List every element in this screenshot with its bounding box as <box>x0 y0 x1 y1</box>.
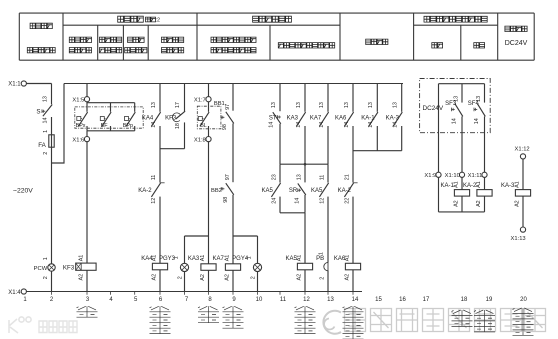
terminal X1:8 <box>194 137 211 144</box>
svg-text:24: 24 <box>272 198 278 204</box>
wire BB2 to junction <box>232 195 234 236</box>
svg-text:12: 12 <box>320 198 326 204</box>
svg-text:PCW: PCW <box>34 266 48 272</box>
svg-text:SR: SR <box>289 188 298 194</box>
wire BB1 to BB2 <box>232 123 234 182</box>
svg-text:KA7: KA7 <box>212 256 224 262</box>
svg-text:KA3: KA3 <box>188 256 200 262</box>
svg-text:A1: A1 <box>476 181 482 188</box>
svg-text:BB1: BB1 <box>214 101 225 107</box>
wire X1:6 down to time relay coil <box>86 141 88 263</box>
dashed enclosure pressure switches <box>75 107 143 128</box>
svg-text:BL: BL <box>200 123 207 129</box>
svg-text:14: 14 <box>296 122 302 128</box>
svg-text:15: 15 <box>375 297 382 303</box>
svg-text:11: 11 <box>151 175 157 181</box>
relay coil KA3 <box>188 255 216 292</box>
svg-text:1: 1 <box>43 130 49 133</box>
svg-text:14: 14 <box>393 122 399 128</box>
svg-text:17: 17 <box>423 297 430 303</box>
bus ruler ticks and numbers <box>23 292 527 304</box>
table cell: alarm valve pressure switch <box>125 37 147 53</box>
svg-text:2: 2 <box>178 276 184 279</box>
node wire ST KA3 KA7 <box>280 163 328 165</box>
contact table KA6 <box>343 306 364 339</box>
svg-text:X1:10: X1:10 <box>445 173 460 179</box>
DC24V feed rail <box>439 83 485 85</box>
svg-text:KA-2: KA-2 <box>138 188 152 194</box>
svg-text:A1: A1 <box>151 255 157 262</box>
contact KA7 13-14 <box>310 84 329 165</box>
svg-text:13: 13 <box>42 96 48 102</box>
svg-text:2: 2 <box>251 276 257 279</box>
table cell: high tank flow switch <box>100 37 122 53</box>
manual start button SF3 13-14 <box>445 84 463 173</box>
contact KA5 11-12 <box>311 164 329 262</box>
wire joining KA4 and KF3 outputs <box>160 148 185 150</box>
svg-text:A1: A1 <box>296 255 302 262</box>
relay coil KA-2 <box>463 177 492 212</box>
contact KA-1 13-14 <box>361 84 378 151</box>
wire KA4 contact to KA-2 contact <box>159 126 161 183</box>
svg-text:13: 13 <box>327 297 334 303</box>
terminal X1:9 <box>424 172 441 179</box>
pressure switch BPx <box>76 103 88 131</box>
table cell: stop <box>474 43 485 48</box>
signal lamp PGY4 <box>232 236 261 292</box>
wire junction to KA7 coil <box>232 236 234 264</box>
terminal X1:13 <box>511 227 526 242</box>
svg-text:13: 13 <box>368 102 374 108</box>
terminal X1:10 <box>445 172 465 179</box>
table cell: control power protection & indication <box>27 23 55 53</box>
timed contact KF3 17-18 <box>165 84 185 149</box>
wire DC24V to X1:9 <box>438 84 440 173</box>
svg-text:KF3: KF3 <box>165 116 177 122</box>
wire fuse to lamp and bottom bus <box>51 147 53 264</box>
relay coil KA-3 <box>501 159 531 228</box>
svg-text:S: S <box>36 109 40 116</box>
svg-text:22: 22 <box>345 198 351 204</box>
svg-text:14: 14 <box>452 118 458 124</box>
svg-text:13: 13 <box>453 96 459 102</box>
svg-text:21: 21 <box>345 174 351 180</box>
contact KA3 13-14 <box>287 84 306 165</box>
svg-text:2: 2 <box>319 277 325 280</box>
svg-text:A2: A2 <box>453 200 459 207</box>
svg-text:KA3: KA3 <box>287 116 299 122</box>
wire joining KA6 KA-1 KA-3 <box>353 150 402 152</box>
contact KA5 23-24 <box>261 164 280 213</box>
table header: fire linkage manual control panel <box>424 16 487 22</box>
contact table KA-3 <box>513 308 534 335</box>
wire KA5/SR join to KA5 coil <box>280 212 305 214</box>
fuse FA <box>38 117 54 155</box>
svg-text:DC24V: DC24V <box>505 40 528 47</box>
svg-text:13: 13 <box>476 96 482 102</box>
relay coil KA5 <box>285 255 312 292</box>
svg-text:17: 17 <box>175 102 181 108</box>
svg-text:KF3: KF3 <box>63 264 75 271</box>
watermark right logo circle <box>323 311 341 334</box>
junction dot <box>304 163 307 166</box>
svg-text:14: 14 <box>151 122 157 128</box>
dash-dot enclosure fire linkage DC24V <box>420 79 491 133</box>
return rail X1:9 KA-1 KA-2 <box>438 177 440 212</box>
svg-text:A1: A1 <box>514 181 520 188</box>
svg-text:X1:1: X1:1 <box>8 82 21 88</box>
svg-text:13: 13 <box>296 102 302 108</box>
svg-text:KA5: KA5 <box>311 188 323 194</box>
svg-text:X1:11: X1:11 <box>468 173 483 179</box>
svg-text:FA: FA <box>38 142 46 149</box>
relay coil KA6 <box>334 255 361 292</box>
bottom common bus <box>26 291 362 293</box>
pressure switch group rail top <box>87 102 135 103</box>
table header: sound-light alarm circuit <box>253 16 292 22</box>
svg-text:KA-3: KA-3 <box>501 183 515 189</box>
svg-text:1: 1 <box>247 256 253 259</box>
signal lamp PGY3 <box>159 236 189 292</box>
indicator lamp PCW <box>34 257 56 291</box>
svg-text:97: 97 <box>225 104 231 110</box>
svg-text:14: 14 <box>42 118 48 124</box>
svg-text:BB2: BB2 <box>211 188 222 194</box>
svg-text:KA-1: KA-1 <box>361 116 375 122</box>
svg-text:X1:13: X1:13 <box>511 236 526 242</box>
contact KA6 13-14 <box>335 84 354 183</box>
svg-text:98: 98 <box>223 197 229 203</box>
switch S with manual flag <box>36 84 52 124</box>
svg-text:2: 2 <box>43 276 49 279</box>
contact table KA-1 <box>452 310 473 326</box>
svg-text:KA7: KA7 <box>310 116 322 122</box>
svg-text:A1: A1 <box>344 255 350 262</box>
push button BB1 97-98 <box>214 84 234 131</box>
svg-text:12: 12 <box>303 297 310 303</box>
svg-text:13: 13 <box>344 102 350 108</box>
svg-text:X1:7: X1:7 <box>194 97 206 103</box>
time relay coil KF3 <box>63 255 96 292</box>
terminal X1:1 <box>8 81 26 88</box>
svg-text:11: 11 <box>280 297 287 303</box>
push button BB2 97-98 <box>211 174 234 202</box>
svg-text:A2: A2 <box>78 274 84 281</box>
junction wire to PGY3 lamp <box>185 235 209 237</box>
svg-text:A1: A1 <box>453 181 459 188</box>
svg-text:1: 1 <box>318 252 324 255</box>
watermark left logo <box>9 317 31 333</box>
relay coil KA7 <box>212 255 240 292</box>
relay coil KA4 <box>141 255 167 292</box>
contact table KA-2 <box>474 310 495 332</box>
junction wire to PGY4 lamp <box>233 235 258 237</box>
svg-text:14: 14 <box>295 198 301 204</box>
svg-text:A1: A1 <box>200 255 206 262</box>
svg-text:23: 23 <box>272 174 278 180</box>
svg-text:10: 10 <box>256 297 263 303</box>
svg-text:13: 13 <box>297 174 303 180</box>
svg-text:KA-1: KA-1 <box>440 183 454 189</box>
svg-text:X1:8: X1:8 <box>194 137 206 143</box>
table header: delayed pump start <box>118 16 160 23</box>
manual stop button SF4 13-14 <box>468 84 486 173</box>
contact table KA7 <box>223 306 244 328</box>
svg-text:2: 2 <box>43 152 49 155</box>
svg-text:A2: A2 <box>476 200 482 207</box>
svg-text::2: :2 <box>156 18 161 24</box>
svg-text:98: 98 <box>222 124 228 130</box>
svg-text:A2: A2 <box>151 274 157 281</box>
manual test button ST 13-14 <box>269 84 281 165</box>
contact table KF3 <box>77 306 98 317</box>
svg-text:13: 13 <box>271 102 277 108</box>
relay coil KA-1 <box>440 177 469 212</box>
svg-text:14: 14 <box>368 122 374 128</box>
svg-text:1: 1 <box>174 256 180 259</box>
svg-text:19: 19 <box>486 297 493 303</box>
top supply bus <box>64 83 403 85</box>
contact table KA4 <box>150 306 171 333</box>
svg-text:A1: A1 <box>224 255 230 262</box>
table cell: control circuit power-on delay <box>162 37 184 53</box>
contact table KA5 <box>295 306 316 333</box>
svg-text:18: 18 <box>175 123 181 129</box>
svg-text:13: 13 <box>393 102 399 108</box>
svg-text:14: 14 <box>344 122 350 128</box>
svg-text:X1:5: X1:5 <box>72 97 84 103</box>
svg-text:DC24V: DC24V <box>423 105 444 112</box>
wire KA-2 to KA4 coil <box>159 197 161 264</box>
wire X1:1 to switch S column <box>26 83 51 85</box>
svg-text:A2: A2 <box>296 274 302 281</box>
terminal X1:5 <box>72 84 89 104</box>
svg-text:KA4: KA4 <box>142 116 154 122</box>
svg-text:A2: A2 <box>200 274 206 281</box>
liquid level switch BL in dashed box <box>197 102 221 137</box>
svg-text:A1: A1 <box>78 255 84 262</box>
svg-text:12: 12 <box>151 198 157 204</box>
contact KA4 13-14 <box>142 84 161 128</box>
svg-text:KA-3: KA-3 <box>386 116 400 122</box>
svg-text:KA-2: KA-2 <box>338 188 352 194</box>
svg-text:ST: ST <box>269 116 277 122</box>
manual reset switch SR 13-14 <box>289 164 306 213</box>
table cell: main pipe pressure switch <box>69 37 91 53</box>
svg-text:PB: PB <box>316 256 324 262</box>
table cell: fire linkage DC24V <box>505 26 528 47</box>
terminal X1:11 <box>468 172 488 179</box>
svg-text:KA6: KA6 <box>335 116 347 122</box>
terminal X1:12 <box>515 147 530 159</box>
table cell: audible alarm test and release <box>278 43 334 48</box>
svg-text:97: 97 <box>225 174 231 180</box>
svg-text:1: 1 <box>43 257 49 260</box>
svg-text:14: 14 <box>474 118 480 124</box>
pressure switch BF <box>100 103 111 131</box>
terminal X1:4 <box>8 289 26 296</box>
pressure switch group rail bottom <box>87 130 135 132</box>
svg-text:14: 14 <box>269 122 275 128</box>
svg-text:20: 20 <box>520 297 527 303</box>
function table frame <box>19 13 534 60</box>
contact table KA3 <box>198 306 219 323</box>
svg-text:X1:9: X1:9 <box>424 173 436 179</box>
svg-text:16: 16 <box>399 297 406 303</box>
svg-text:A2: A2 <box>224 274 230 281</box>
svg-text:KA-2: KA-2 <box>463 183 477 189</box>
wire junction to top bus riser <box>52 84 65 164</box>
contact KA-2 11-12 normally closed <box>138 175 164 204</box>
svg-text:A2: A2 <box>344 274 350 281</box>
terminal X1:6 <box>72 131 89 144</box>
terminal X1:7 <box>194 84 211 104</box>
table cell: water level too low / overload alarm signal <box>211 37 256 53</box>
svg-text:X1:4: X1:4 <box>8 290 21 296</box>
svg-text:13: 13 <box>151 102 157 108</box>
svg-text:13: 13 <box>319 102 325 108</box>
table cell: start <box>432 43 443 48</box>
pressure switch BPp <box>123 103 136 131</box>
table cell: water pump control <box>366 39 388 44</box>
svg-text:11: 11 <box>320 175 326 181</box>
svg-text:18: 18 <box>461 297 468 303</box>
alarm bell PB <box>316 252 328 291</box>
svg-text:14: 14 <box>319 122 325 128</box>
svg-text:X1:12: X1:12 <box>515 147 530 153</box>
svg-text:A2: A2 <box>514 200 520 207</box>
wire junction to KA3 coil <box>208 236 210 264</box>
svg-text:~220V: ~220V <box>13 187 33 194</box>
contact KA-2 21-22 normally closed <box>338 174 358 203</box>
contact KA-3 13-14 <box>386 84 403 151</box>
svg-text:14: 14 <box>352 297 359 303</box>
wire X1:8 down to junction <box>208 141 210 236</box>
watermark text national building standard design <box>345 309 546 332</box>
svg-text:X1:6: X1:6 <box>72 137 84 143</box>
wire KA-2 to KA6 coil <box>352 197 354 264</box>
svg-text:KA5: KA5 <box>261 188 273 194</box>
